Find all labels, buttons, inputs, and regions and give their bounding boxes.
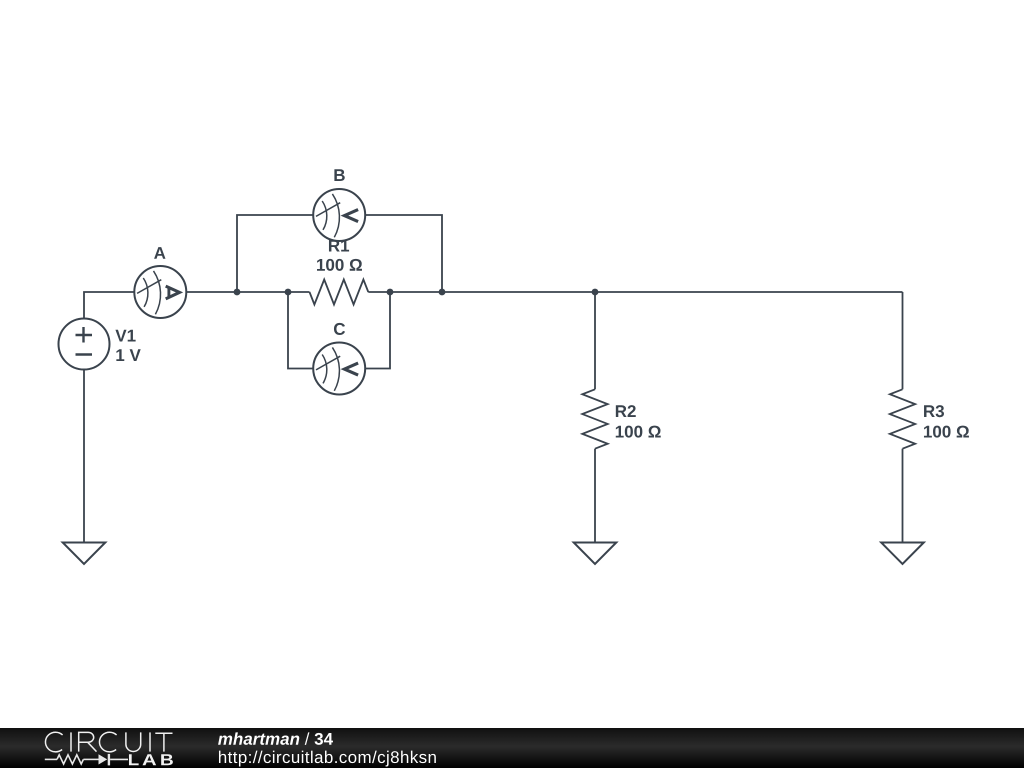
- wire: [186, 291, 309, 293]
- wire: [594, 292, 596, 389]
- value 100 ohm (R2): [616, 426, 661, 438]
- label R1: [329, 240, 349, 252]
- logo wire: [45, 758, 57, 760]
- node junction: [285, 289, 292, 296]
- value 1 V: [116, 349, 140, 361]
- wire: [902, 292, 904, 389]
- value 100 ohm (R1): [317, 259, 362, 271]
- logo CIRCUIT text (drawn as thin strokes): [45, 732, 172, 752]
- wire: [594, 449, 596, 542]
- ground (R2 branch): [574, 543, 617, 565]
- ground (V1 branch): [63, 543, 106, 565]
- wire: [83, 370, 85, 543]
- wire: [237, 215, 313, 292]
- footer bar: [0, 728, 1024, 768]
- wire: [902, 449, 904, 542]
- footer username: [218, 732, 333, 745]
- node junction: [387, 289, 394, 296]
- node junction: [592, 289, 599, 296]
- voltage source V1: [59, 319, 110, 370]
- resistor R3: [890, 389, 915, 448]
- logo diode cathode bar: [108, 754, 110, 766]
- ammeter A: [134, 266, 186, 318]
- logo wire: [110, 758, 128, 760]
- voltmeter C: [313, 343, 365, 395]
- node junction: [234, 289, 241, 296]
- label R2: [616, 405, 636, 417]
- wire: [365, 292, 390, 369]
- label B: [334, 169, 344, 181]
- logo resistor zigzag: [57, 755, 83, 764]
- voltmeter B: [313, 189, 365, 241]
- node junction: [439, 289, 446, 296]
- logo LAB text: [129, 754, 173, 765]
- resistor R2: [582, 389, 607, 448]
- value 100 ohm (R3): [924, 426, 969, 438]
- resistor R1: [310, 280, 369, 305]
- wire: [365, 215, 442, 292]
- wire: [368, 291, 902, 293]
- label A: [154, 247, 165, 259]
- label V1: [115, 330, 135, 342]
- label R3: [924, 405, 944, 417]
- footer url: [219, 751, 436, 767]
- wire: [84, 292, 134, 319]
- label C: [334, 323, 345, 335]
- logo diode: [99, 754, 108, 764]
- wire: [288, 292, 313, 369]
- logo wire: [83, 758, 98, 760]
- ground (R3 branch): [881, 543, 924, 565]
